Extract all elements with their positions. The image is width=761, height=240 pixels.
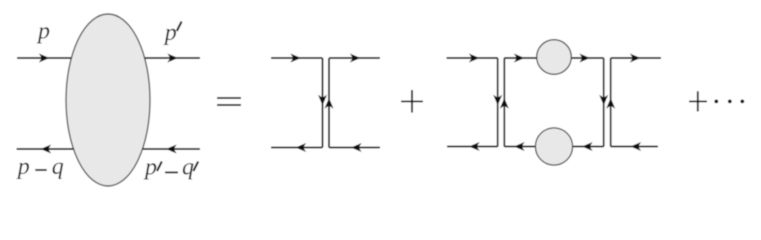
wire incoming bottom-left leg bbox=[17, 145, 74, 154]
label p' bbox=[163, 20, 182, 46]
svg-text:p: p bbox=[143, 155, 157, 181]
wire d2 top segment 1 bbox=[447, 54, 498, 63]
label p' - q' bbox=[143, 155, 198, 181]
wire d1 bottom-right segment bbox=[329, 143, 380, 152]
blob G (four-point amplitude ellipse) bbox=[66, 14, 150, 186]
wire d1 top-left segment bbox=[271, 54, 323, 63]
ellipsis dots bbox=[714, 100, 744, 104]
wire outgoing bottom-right leg bbox=[143, 145, 201, 154]
wire d2 top segment 2 bbox=[504, 54, 538, 63]
blob bottom self-energy circle bbox=[535, 128, 572, 165]
svg-text:q: q bbox=[182, 155, 194, 181]
wire d2 rung2 left line (down-going) bbox=[599, 58, 608, 147]
wire incoming top-left leg bbox=[17, 54, 72, 63]
wire outgoing top-right leg bbox=[145, 54, 201, 63]
plus sign 2 bbox=[689, 91, 707, 111]
svg-text:p: p bbox=[163, 20, 177, 46]
equals sign bbox=[217, 98, 241, 105]
wire d2 bottom segment 4 bbox=[611, 142, 658, 151]
wire d2 top segment 3 bbox=[570, 54, 604, 63]
wire d2 rung2 right line (up-going) bbox=[606, 58, 615, 147]
wire d2 top segment 4 bbox=[611, 54, 661, 63]
svg-text:p: p bbox=[16, 154, 30, 180]
plus sign 1 bbox=[401, 90, 423, 113]
wire d1 bottom-left segment bbox=[271, 143, 323, 152]
wire d2 rung1 left line (down-going) bbox=[493, 58, 502, 147]
blob top self-energy circle bbox=[537, 40, 572, 75]
wire d1 top-right segment bbox=[329, 54, 380, 63]
wire d1 vertical right (up-going propagator) bbox=[325, 58, 334, 148]
wire d2 bottom segment 3 bbox=[571, 142, 604, 151]
wire d2 rung1 right line (up-going) bbox=[500, 58, 509, 147]
wire d1 vertical left (down-going propagator) bbox=[318, 58, 327, 148]
label p - q bbox=[16, 154, 64, 180]
svg-text:q: q bbox=[52, 154, 64, 180]
wire d2 bottom segment 1 bbox=[447, 142, 498, 151]
wire d2 bottom segment 2 bbox=[504, 142, 537, 151]
svg-text:p: p bbox=[36, 19, 50, 45]
